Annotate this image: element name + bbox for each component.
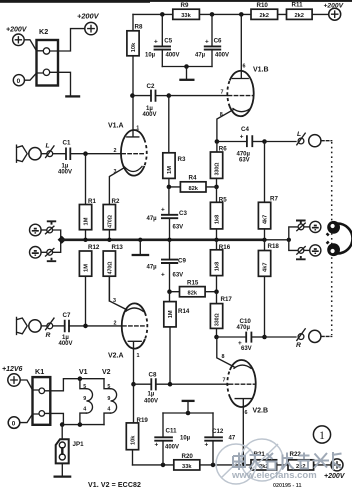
headphone earpiece upper <box>327 221 340 235</box>
node heater V1 bottom <box>78 422 83 427</box>
grid V2.B (dashed) <box>229 383 254 385</box>
wire connector to C1 <box>53 153 66 155</box>
node JP1 tee <box>60 422 65 427</box>
svg-text:+200V: +200V <box>324 473 346 480</box>
svg-text:6: 6 <box>243 64 246 70</box>
node C6 top <box>210 12 215 17</box>
svg-text:JP1: JP1 <box>73 441 85 448</box>
anode V1.A <box>127 96 139 137</box>
svg-text:+: + <box>161 271 165 278</box>
ground (K2) <box>65 95 80 97</box>
watermark chinese characters <box>233 452 342 470</box>
resistor R2 <box>103 198 120 240</box>
wire +12V6 to K1 pin1 <box>20 380 38 390</box>
wire headphone tee upper <box>289 227 297 240</box>
svg-text:4: 4 <box>107 406 110 412</box>
svg-text:C10: C10 <box>240 318 252 325</box>
anode V2.A <box>128 341 141 384</box>
ground (bus) <box>139 240 141 254</box>
svg-text:020195 - 11: 020195 - 11 <box>273 483 301 487</box>
wire K1 pin1 to heater rail <box>45 379 104 391</box>
svg-text:7: 7 <box>223 377 226 383</box>
cathode lead V1.B <box>217 110 234 142</box>
resistor R10 <box>251 2 278 20</box>
svg-text:R14: R14 <box>178 308 190 315</box>
svg-text:R18: R18 <box>268 243 280 250</box>
resistor R18 <box>258 240 279 337</box>
svg-text:+: + <box>154 39 158 46</box>
resistor R8 <box>127 24 143 56</box>
svg-text:V1: V1 <box>79 369 88 376</box>
node bus C3/C9 <box>167 238 171 242</box>
svg-text:1M: 1M <box>168 310 174 318</box>
node bus R5/R16 <box>214 238 218 242</box>
small ground (above upper connector) <box>47 221 56 224</box>
svg-text:47µ: 47µ <box>195 53 206 59</box>
wire K2 pin2 to ground <box>50 72 71 95</box>
svg-text:10k: 10k <box>131 435 137 445</box>
svg-text:63V: 63V <box>173 272 184 278</box>
node diamond (bus left end) <box>58 236 66 244</box>
svg-text:400V: 400V <box>144 399 158 405</box>
dotted headphone line <box>331 142 333 335</box>
grid V1.A (dashed) <box>122 153 146 155</box>
wire K2 pin1 to +200V node <box>50 29 85 51</box>
wire upper connector to diamond <box>53 230 61 240</box>
resistor R17 <box>210 292 232 337</box>
cathode lead V2.B <box>217 337 234 367</box>
svg-text:63V: 63V <box>239 157 250 163</box>
capacitor C12 <box>204 413 236 465</box>
resistor R12 <box>79 244 100 326</box>
chassis jack (headphone upper) <box>304 221 321 232</box>
svg-text:www.elecfans.com: www.elecfans.com <box>231 470 317 481</box>
connector (R output) <box>297 329 305 341</box>
svg-text:+: + <box>155 442 159 449</box>
svg-text:4k7: 4k7 <box>263 262 269 272</box>
small ground (above upper headphone connector) <box>296 221 306 224</box>
svg-text:C11: C11 <box>166 427 178 434</box>
small ground (below lower connector) <box>47 258 56 261</box>
svg-text:R12: R12 <box>88 244 100 251</box>
svg-text:400V: 400V <box>58 169 72 175</box>
heater winding V2 <box>104 379 117 425</box>
svg-text:+: + <box>240 133 244 140</box>
svg-text:C6: C6 <box>214 38 222 45</box>
node R14 bottom <box>168 382 173 387</box>
wire K1 pin2 to jumper rail <box>45 413 64 424</box>
svg-text:330Ω: 330Ω <box>215 163 221 176</box>
svg-text:+: + <box>205 442 209 449</box>
svg-text:C9: C9 <box>178 258 186 265</box>
input jack L <box>29 148 41 160</box>
resistor R13 <box>103 244 123 301</box>
svg-text:63V: 63V <box>241 346 252 352</box>
svg-text:1: 1 <box>136 126 139 132</box>
chassis jack (headphone lower) <box>304 245 321 256</box>
svg-text:47µ: 47µ <box>147 216 158 222</box>
+12V6 terminal <box>2 366 23 386</box>
svg-text:0: 0 <box>17 78 21 85</box>
svg-text:4: 4 <box>83 406 86 412</box>
svg-text:5: 5 <box>107 384 110 390</box>
connector (headphone lower) <box>297 247 305 255</box>
node bus R1 <box>83 238 87 242</box>
triode V1.B envelope <box>227 67 268 117</box>
cathode lead V2.A to R13 <box>109 276 126 309</box>
svg-text:R15: R15 <box>187 280 199 287</box>
wire 0V to K2 pin2 <box>25 73 44 80</box>
svg-text:8: 8 <box>222 354 225 360</box>
connector (headphone upper) <box>297 223 305 231</box>
ground (C5/C6) <box>186 67 188 79</box>
svg-text:+: + <box>205 39 209 46</box>
svg-text:2: 2 <box>114 321 117 327</box>
dashed link R to headphone line <box>322 335 332 337</box>
svg-text:470Ω: 470Ω <box>107 262 113 275</box>
svg-text:C7: C7 <box>63 312 71 319</box>
svg-text:400V: 400V <box>165 444 179 450</box>
chassis jack lower (bus left) <box>30 247 42 259</box>
node C2 / R3 / V1.B grid <box>167 93 172 98</box>
svg-text:R4: R4 <box>189 175 197 182</box>
svg-text:1M: 1M <box>84 217 90 225</box>
svg-text:9: 9 <box>83 396 86 402</box>
capacitor C5 <box>145 14 180 66</box>
small ground (below lower headphone connector) <box>296 256 306 259</box>
wire headphone tee lower <box>289 240 297 251</box>
wire 0V to K1 pin2 <box>20 414 39 423</box>
resistor R19 <box>126 384 148 465</box>
connector (upper, to bus) <box>41 226 54 234</box>
svg-text:C2: C2 <box>147 83 155 90</box>
cathode lead V1.A to R2 <box>109 168 124 205</box>
wire C11/C12 tops <box>163 412 213 414</box>
+200V terminal (top right) <box>324 2 344 20</box>
svg-text:470Ω: 470Ω <box>107 215 113 228</box>
svg-text:C4: C4 <box>241 126 249 133</box>
svg-text:5: 5 <box>83 384 86 390</box>
chassis jack upper (bus left) <box>30 224 42 236</box>
svg-text:63V: 63V <box>173 224 184 230</box>
wire node to R connector <box>265 336 297 338</box>
svg-text:C5: C5 <box>164 38 172 45</box>
svg-text:R13: R13 <box>112 244 124 251</box>
svg-text:47µ: 47µ <box>147 265 158 271</box>
svg-text:10k: 10k <box>131 42 137 52</box>
node bus R2 <box>107 238 111 242</box>
wire C1 to grid node <box>70 153 121 155</box>
bottom supply rail <box>133 464 332 466</box>
cathode V1.B <box>233 109 250 112</box>
dashed link L to headphone line <box>322 140 332 142</box>
jack circle (R output) <box>309 330 321 342</box>
node bus headphone tee <box>287 238 291 242</box>
resistor R11 <box>287 1 313 19</box>
svg-text:4k7: 4k7 <box>263 215 269 225</box>
svg-text:2: 2 <box>114 148 117 154</box>
wire R8 top to rail / bottom to V1.A anode node <box>132 14 134 95</box>
node R grid <box>83 324 88 329</box>
svg-text:10µ: 10µ <box>180 436 191 442</box>
svg-text:+: + <box>161 207 165 214</box>
node output R / R18 <box>262 335 267 340</box>
node V1.B anode rail <box>239 12 244 17</box>
resistor R1 <box>79 154 96 240</box>
connector K2 <box>37 27 59 86</box>
cathode V1.A <box>124 167 142 172</box>
svg-text:L: L <box>46 143 50 150</box>
jumper JP1 <box>56 425 84 464</box>
top scan border <box>0 0 352 2</box>
grid V2.A (dashed) <box>123 325 147 327</box>
input plug L <box>17 145 28 162</box>
svg-text:6: 6 <box>245 410 248 416</box>
+200V terminal (top, right of K2) <box>77 12 100 35</box>
svg-text:R9: R9 <box>181 2 189 9</box>
svg-text:470µ: 470µ <box>237 325 251 331</box>
svg-text:1k8: 1k8 <box>215 262 221 272</box>
wire top supply rail <box>133 13 329 15</box>
resistor R6 <box>210 142 227 187</box>
svg-text:R: R <box>46 332 51 339</box>
svg-text:400V: 400V <box>215 53 229 59</box>
watermark logo circles <box>216 439 283 484</box>
circled 1 annotation <box>313 426 330 443</box>
svg-text:C12: C12 <box>212 428 224 435</box>
resistor R9 <box>173 2 200 19</box>
ground bus <box>62 238 265 241</box>
svg-text:400V: 400V <box>143 112 157 118</box>
wire C7 to grid node <box>69 325 122 327</box>
node V1.B cathode / C4 / R6 <box>215 139 220 144</box>
0V terminal (top-left) <box>13 75 24 86</box>
svg-text:2k2: 2k2 <box>294 13 304 19</box>
anode V1.B <box>232 14 248 78</box>
svg-text:82k: 82k <box>188 186 198 192</box>
svg-text:+200V: +200V <box>77 12 100 21</box>
node bus R7/R18 <box>262 238 266 242</box>
cathode V2.A <box>126 308 143 311</box>
wire connector to C7 <box>53 325 64 327</box>
svg-text:10µ: 10µ <box>145 53 156 59</box>
node V2.A anode / C8 / R19 <box>131 382 136 387</box>
svg-text:+200V: +200V <box>6 27 28 34</box>
svg-text:V1, V2 = ECC82: V1, V2 = ECC82 <box>88 482 141 487</box>
resistor R14 <box>164 292 190 385</box>
connector (L output) <box>297 133 305 145</box>
svg-text:K1: K1 <box>35 367 44 376</box>
svg-text:1µ: 1µ <box>148 392 155 398</box>
svg-text:K2: K2 <box>39 27 48 36</box>
resistor R3 <box>163 96 186 187</box>
capacitor C9 <box>147 240 187 292</box>
svg-text:+12V6: +12V6 <box>2 366 23 373</box>
node R17/C10/V2.B cathode <box>214 335 219 340</box>
svg-text:R3: R3 <box>178 156 186 163</box>
node C12 bottom <box>211 463 216 468</box>
capacitor C2 <box>132 83 168 118</box>
capacitor C6 <box>195 14 229 66</box>
node inverted ground tee <box>186 411 191 416</box>
resistor R20 <box>174 453 200 470</box>
svg-text:400V: 400V <box>59 341 73 347</box>
connector K1 <box>33 367 51 425</box>
svg-text:V2: V2 <box>102 369 111 376</box>
capacitor C3 <box>147 187 188 240</box>
node R6/R5/R4 <box>214 185 219 190</box>
grid wire V1.B from C2 node <box>169 95 228 97</box>
svg-text:2k2: 2k2 <box>259 13 269 19</box>
svg-text:1M: 1M <box>84 264 90 272</box>
resistor R21 <box>251 451 277 470</box>
grid V1.B (dashed) <box>228 95 253 97</box>
ground (JP1) <box>61 463 63 475</box>
0V terminal (bottom-left) <box>8 417 20 429</box>
wire C5/C6 bottoms <box>162 66 212 68</box>
wire lower connector to diamond <box>53 240 61 253</box>
connector (L input) <box>41 146 54 158</box>
capacitor C8 <box>134 371 229 404</box>
resistor R7 <box>258 142 278 240</box>
svg-text:1M: 1M <box>167 166 173 174</box>
node bus ground tee <box>138 238 142 242</box>
anode V2.B <box>235 399 252 465</box>
svg-text:33k: 33k <box>182 464 192 470</box>
svg-text:V1.B: V1.B <box>253 67 269 74</box>
svg-text:9: 9 <box>107 396 110 402</box>
svg-text:C1: C1 <box>63 140 71 147</box>
node heater V1 top <box>78 376 83 381</box>
svg-text:R17: R17 <box>221 296 233 303</box>
svg-text:0: 0 <box>12 420 16 427</box>
+200V terminal (bottom right) <box>324 459 346 480</box>
node R3/R4/C3 <box>167 185 172 190</box>
triode V2.A envelope <box>108 303 147 359</box>
resistor R22 <box>288 451 314 470</box>
capacitor C4 <box>217 126 265 163</box>
svg-text:1k8: 1k8 <box>215 215 221 225</box>
svg-text:R10: R10 <box>257 2 269 9</box>
headphone band <box>338 224 352 254</box>
triode V1.A envelope <box>108 123 147 176</box>
capacitor C10 <box>217 318 265 352</box>
+200V terminal (left) <box>6 27 28 46</box>
svg-text:33k: 33k <box>181 13 191 19</box>
jack circle (L output) <box>309 135 321 147</box>
capacitor C11 <box>154 413 190 465</box>
capacitor C7 <box>59 312 73 347</box>
svg-text:C8: C8 <box>149 371 157 378</box>
node L grid <box>83 151 88 156</box>
heater bottom rail <box>62 424 104 426</box>
input plug R <box>17 317 28 334</box>
svg-text:R: R <box>296 342 301 349</box>
wire node to L connector <box>265 141 297 143</box>
node V1.A anode / C2 <box>130 93 135 98</box>
svg-text:V1.A: V1.A <box>108 123 124 130</box>
input jack R <box>29 320 41 332</box>
resistor R15 <box>170 280 217 297</box>
svg-text:C3: C3 <box>179 210 187 217</box>
capacitor C1 <box>58 140 72 176</box>
node output L / R7 <box>262 139 267 144</box>
heater winding V1 <box>80 379 93 425</box>
svg-text:400V: 400V <box>166 53 180 59</box>
resistor R4 <box>169 175 217 192</box>
headphone earpiece lower <box>327 242 340 256</box>
connector (lower, to bus) <box>41 249 54 257</box>
resistor R16 <box>210 240 230 292</box>
svg-text:V2.A: V2.A <box>108 353 124 360</box>
ground (inverted, above C11/C12) <box>187 402 189 413</box>
svg-text:R8: R8 <box>135 24 143 31</box>
svg-text:330Ω: 330Ω <box>215 313 221 326</box>
node R15/C9/R14 <box>167 289 172 294</box>
svg-text:V2.B: V2.B <box>253 408 269 415</box>
connector (R input) <box>41 318 54 330</box>
svg-text:R11: R11 <box>292 1 304 8</box>
svg-text:L: L <box>297 131 301 138</box>
cathode V2.B <box>234 365 251 368</box>
node R16/R17/R15 <box>214 289 219 294</box>
node V2.B anode rail <box>241 463 246 468</box>
node ground tee <box>184 64 189 69</box>
triode V2.B envelope <box>227 360 268 415</box>
svg-text:1: 1 <box>137 353 140 359</box>
svg-text:1: 1 <box>319 430 325 442</box>
svg-text:7: 7 <box>221 90 224 96</box>
node C11 bottom <box>161 463 166 468</box>
wire +200V to K2 pin1 <box>24 40 43 51</box>
svg-text:82k: 82k <box>188 291 198 297</box>
svg-text:47: 47 <box>229 436 236 442</box>
node C5 top <box>160 12 165 17</box>
resistor R5 <box>210 187 227 240</box>
